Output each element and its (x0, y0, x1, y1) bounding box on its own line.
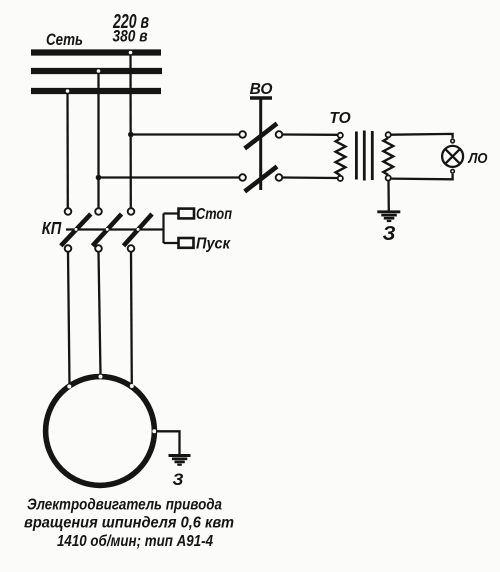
junction on bus L1 (129, 51, 133, 55)
switch ВО pole 2 contact left (239, 174, 246, 181)
wire secondary top to lamp (391, 134, 452, 138)
contactor КП pole 1 pivot (75, 228, 78, 231)
svg-text:ВО: ВО (250, 81, 273, 98)
wire ВО pole 2 to transformer primary (283, 176, 337, 179)
contactor КП linkage to buttons (66, 214, 178, 244)
bus bar phase L1 (31, 49, 161, 55)
wire to switch ВО pole 2 (99, 176, 239, 178)
bus bar phase L2 (31, 68, 162, 74)
svg-text:1410 об/мин; тип А91-4: 1410 об/мин; тип А91-4 (57, 533, 213, 550)
wire drop from L2 (97, 71, 99, 208)
svg-text:Сеть: Сеть (46, 31, 83, 49)
contactor КП pole 3 top contact (128, 208, 135, 215)
switch ВО pole 1 contact left (239, 131, 246, 138)
switch ВО pole 2 blade (245, 167, 277, 192)
motor terminal 3 (130, 384, 134, 388)
contactor КП pole 2 top contact (95, 208, 102, 215)
wire drop from L3 (66, 91, 69, 208)
motor terminal 2 (99, 375, 103, 379)
svg-text:ЛО: ЛО (468, 150, 488, 167)
switch ВО linkage bar (250, 98, 272, 190)
motor M1 body (46, 377, 155, 486)
svg-text:ТО: ТО (329, 110, 350, 127)
svg-text:З: З (173, 470, 184, 489)
contactor КП pole 1 bottom contact (65, 245, 72, 252)
ground symbol at motor (169, 456, 191, 465)
contactor КП pole 2 pivot (106, 228, 109, 231)
svg-text:З: З (383, 223, 396, 245)
switch ВО pole 1 contact right (276, 131, 283, 138)
wire ВО pole 1 to transformer primary (283, 133, 337, 136)
svg-text:Пуск: Пуск (196, 236, 231, 253)
junction on bus L3 (66, 89, 70, 93)
wire motor to ground (156, 431, 180, 454)
junction node at L1 drop (128, 132, 134, 138)
transformer ТО primary winding (336, 133, 346, 181)
ground symbol at transformer (377, 212, 400, 221)
contactor КП pole 1 top contact (65, 208, 72, 215)
bus bar phase L3 (31, 88, 161, 94)
motor terminal 1 (67, 385, 71, 389)
motor lead phase 2 (99, 252, 101, 374)
switch ВО pole 2 contact right (276, 174, 283, 181)
svg-text:вращения шпинделя 0,6 квт: вращения шпинделя 0,6 квт (24, 515, 234, 532)
contactor КП pole 2 blade (93, 214, 122, 246)
junction node at L2 drop (96, 175, 102, 181)
svg-text:Электродвигатель привода: Электродвигатель привода (27, 497, 222, 514)
transformer ТО secondary winding (383, 132, 393, 180)
contactor КП pole 1 blade (61, 214, 91, 246)
wire secondary to ground (387, 181, 390, 211)
lamp ЛО (442, 139, 463, 173)
contactor КП pole 3 blade (124, 214, 153, 246)
push button Стоп (179, 209, 195, 219)
junction on bus L2 (97, 69, 101, 73)
svg-text:380 в: 380 в (113, 27, 148, 46)
motor lead phase 3 (130, 252, 133, 384)
push button Пуск (179, 238, 194, 248)
wire drop from L1 (129, 53, 132, 208)
switch ВО pole 1 blade (245, 124, 277, 149)
contactor КП pole 3 pivot (137, 228, 140, 231)
motor lead phase 1 (68, 252, 70, 384)
transformer ТО core (356, 131, 372, 181)
contactor КП pole 2 bottom contact (95, 245, 102, 252)
svg-text:Стоп: Стоп (196, 206, 232, 223)
svg-text:КП: КП (42, 218, 62, 238)
wire to switch ВО pole 1 (131, 133, 239, 135)
contactor КП pole 3 bottom contact (128, 245, 135, 252)
motor ground terminal (152, 429, 156, 433)
wire lamp to secondary bottom (391, 174, 452, 180)
